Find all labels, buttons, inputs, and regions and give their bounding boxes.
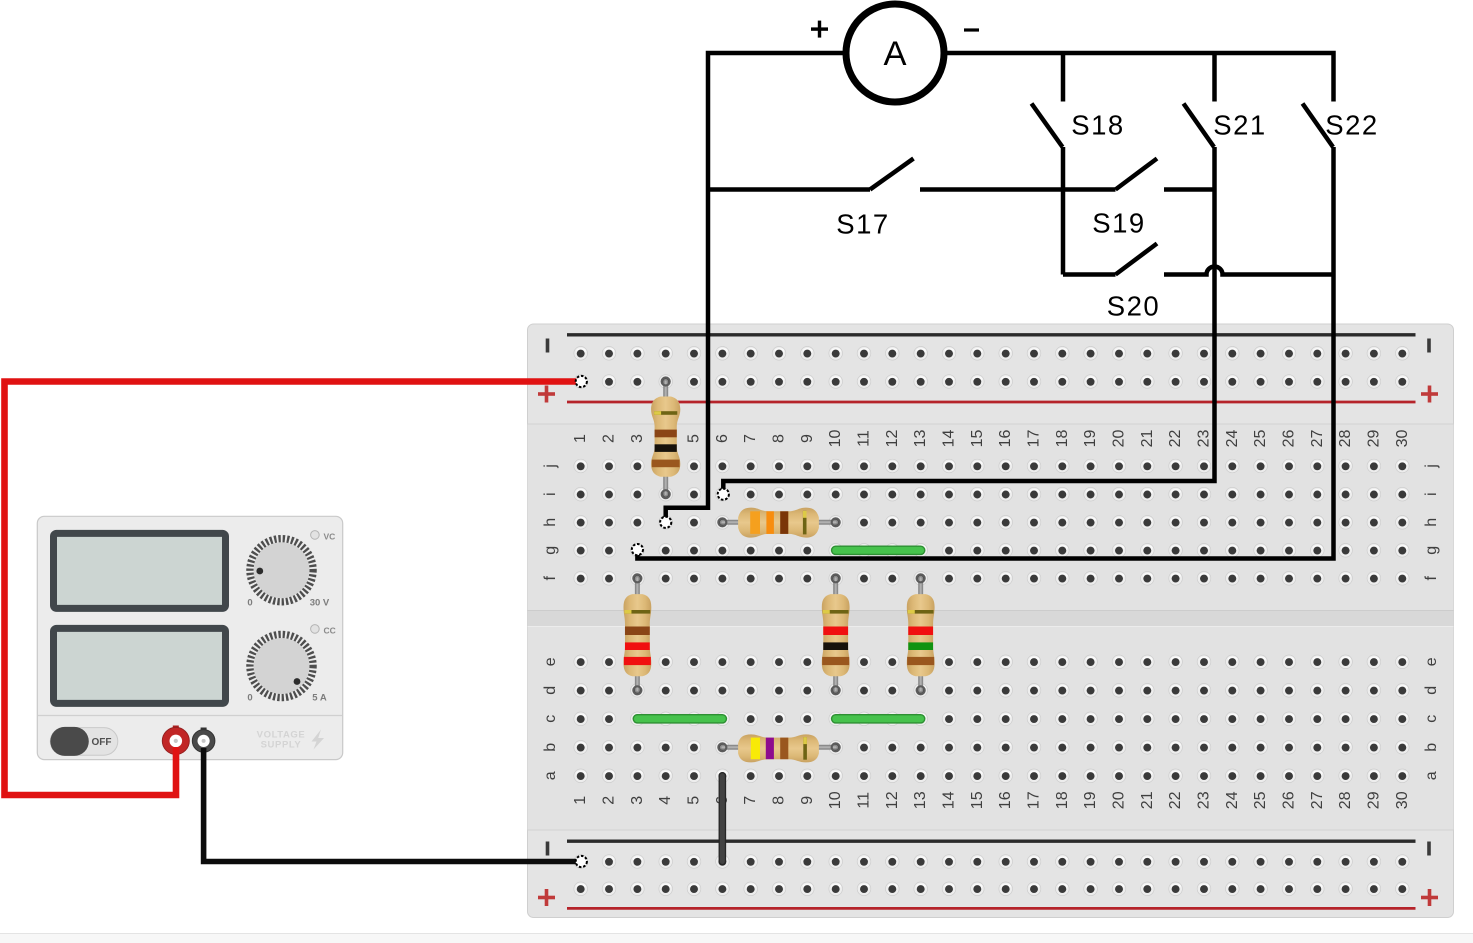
resistor R5 (orange-orange-brown, h6 to h10) — [718, 508, 839, 538]
svg-text:23: 23 — [1196, 791, 1213, 809]
node: g3 pin — [632, 544, 643, 555]
top power rail minus line — [567, 333, 1416, 336]
current knob — [251, 635, 313, 697]
svg-text:26: 26 — [1281, 791, 1298, 809]
svg-text:8: 8 — [771, 434, 788, 443]
svg-text:A: A — [883, 35, 906, 73]
svg-text:13: 13 — [912, 791, 929, 809]
svg-text:20: 20 — [1111, 791, 1128, 809]
svg-text:2: 2 — [601, 434, 618, 443]
svg-text:15: 15 — [969, 791, 986, 809]
svg-text:11: 11 — [856, 430, 873, 447]
svg-text:CC: CC — [324, 626, 336, 636]
power switch OFF — [50, 727, 118, 756]
page bottom divider — [0, 934, 1473, 943]
svg-text:d: d — [542, 686, 559, 695]
svg-text:i: i — [542, 492, 559, 496]
svg-text:SUPPLY: SUPPLY — [261, 740, 302, 751]
svg-text:d: d — [1423, 686, 1440, 695]
svg-text:i: i — [1423, 492, 1440, 496]
jumper wire a6 to V- rail (black) — [719, 776, 727, 862]
VC indicator — [311, 531, 320, 540]
svg-text:11: 11 — [856, 792, 873, 809]
svg-text:22: 22 — [1167, 791, 1184, 809]
svg-text:S22: S22 — [1325, 110, 1378, 141]
svg-text:8: 8 — [771, 796, 788, 805]
svg-text:a: a — [542, 771, 559, 780]
svg-text:c: c — [1423, 715, 1440, 723]
wire: power supply + to breadboard V+ (red) — [5, 382, 579, 796]
svg-text:2: 2 — [601, 796, 618, 805]
wire: S22 branch down to breadboard g3 — [637, 147, 1333, 559]
node: h4 pin — [660, 517, 671, 528]
svg-text:3: 3 — [629, 796, 646, 805]
svg-text:j: j — [1423, 464, 1440, 469]
svg-text:25: 25 — [1252, 791, 1269, 809]
svg-text:OFF: OFF — [92, 737, 112, 748]
negative terminal (black) — [192, 728, 215, 753]
svg-text:e: e — [542, 657, 559, 666]
svg-text:30 V: 30 V — [310, 598, 330, 609]
svg-text:6: 6 — [714, 434, 731, 443]
svg-text:27: 27 — [1309, 791, 1326, 809]
svg-text:19: 19 — [1082, 430, 1099, 448]
svg-text:1: 1 — [572, 434, 589, 443]
svg-text:9: 9 — [799, 434, 816, 443]
wire: power supply - to breadboard V- (black) — [204, 748, 578, 862]
svg-text:18: 18 — [1054, 791, 1071, 809]
svg-text:S18: S18 — [1071, 110, 1124, 141]
current display — [54, 628, 226, 703]
svg-text:0: 0 — [247, 693, 252, 704]
svg-text:5 A: 5 A — [312, 693, 327, 704]
svg-text:21: 21 — [1139, 791, 1156, 809]
svg-text:f: f — [542, 576, 559, 581]
svg-text:22: 22 — [1167, 430, 1184, 448]
svg-text:30: 30 — [1394, 430, 1411, 448]
node: V- rail pin — [576, 856, 587, 867]
row and column labels — [542, 430, 1440, 810]
jumper wire c3 to c6 (green) — [637, 714, 722, 724]
svg-text:b: b — [542, 743, 559, 752]
svg-text:h: h — [542, 518, 559, 527]
svg-text:5: 5 — [686, 434, 703, 443]
svg-text:h: h — [1423, 518, 1440, 527]
svg-text:18: 18 — [1054, 430, 1071, 448]
svg-text:e: e — [1423, 657, 1440, 666]
svg-text:17: 17 — [1026, 430, 1043, 448]
voltage knob — [251, 539, 313, 601]
svg-text:10: 10 — [827, 791, 844, 809]
svg-text:14: 14 — [941, 791, 958, 809]
CC indicator — [311, 625, 320, 634]
jumper wire g10 to g13 (green) — [836, 545, 921, 555]
svg-text:7: 7 — [742, 796, 759, 805]
svg-text:S21: S21 — [1213, 110, 1266, 141]
node: V+ rail pin — [576, 376, 587, 387]
svg-text:16: 16 — [997, 791, 1014, 809]
voltage supply logo — [257, 730, 324, 751]
resistor R6 (yellow-violet-brown, b6 to b10) — [718, 734, 839, 762]
bottom power rail minus line — [567, 840, 1416, 843]
svg-text:25: 25 — [1252, 430, 1269, 448]
svg-text:14: 14 — [941, 430, 958, 448]
switch S17 — [708, 159, 1063, 240]
wire: ammeter - to S18/S21/S22 top rail — [944, 53, 1334, 102]
rail polarity labels — [546, 339, 550, 353]
svg-text:16: 16 — [997, 430, 1014, 448]
resistor R1 (brown-black-brown, V+ to i4) — [651, 378, 680, 499]
switch S20 — [1063, 244, 1334, 322]
resistor R4 (red-green-brown, f13 to d13) — [907, 574, 935, 694]
svg-text:21: 21 — [1139, 430, 1156, 448]
svg-text:j: j — [542, 464, 559, 469]
svg-text:7: 7 — [742, 434, 759, 443]
svg-text:c: c — [542, 715, 559, 723]
svg-text:13: 13 — [912, 430, 929, 448]
svg-text:1: 1 — [572, 796, 589, 805]
node: i6 pin — [718, 489, 729, 500]
svg-text:15: 15 — [969, 430, 986, 448]
switch S21 — [1184, 53, 1267, 147]
svg-text:10: 10 — [827, 430, 844, 448]
svg-text:24: 24 — [1224, 791, 1241, 809]
svg-text:12: 12 — [884, 791, 901, 809]
svg-text:g: g — [542, 546, 559, 555]
svg-text:S17: S17 — [836, 209, 889, 240]
svg-text:3: 3 — [629, 434, 646, 443]
svg-text:19: 19 — [1082, 791, 1099, 809]
svg-text:f: f — [1423, 576, 1440, 581]
svg-text:27: 27 — [1309, 430, 1326, 448]
svg-text:4: 4 — [657, 796, 674, 805]
svg-text:29: 29 — [1365, 430, 1382, 448]
jumper wire c10 to c13 (green) — [836, 714, 921, 724]
switch S22 — [1303, 104, 1379, 148]
svg-text:g: g — [1423, 546, 1440, 555]
power supply PS1 — [37, 516, 342, 759]
svg-text:12: 12 — [884, 430, 901, 448]
wire: breadboard h4 to ammeter + and S17 left rail — [666, 53, 846, 518]
switch S18 — [1032, 53, 1125, 275]
svg-text:29: 29 — [1365, 791, 1382, 809]
svg-text:S19: S19 — [1092, 208, 1145, 239]
bottom power rail plus line — [567, 907, 1416, 910]
svg-text:28: 28 — [1337, 791, 1354, 809]
svg-text:a: a — [1423, 771, 1440, 780]
svg-text:b: b — [1423, 743, 1440, 752]
svg-text:23: 23 — [1196, 430, 1213, 448]
svg-text:0: 0 — [247, 598, 252, 609]
wire: S21 branch down to breadboard i6 — [723, 147, 1214, 491]
svg-text:26: 26 — [1281, 430, 1298, 448]
voltage display — [54, 533, 226, 608]
svg-text:S20: S20 — [1107, 291, 1160, 322]
svg-text:28: 28 — [1337, 430, 1354, 448]
svg-text:VC: VC — [324, 532, 336, 542]
svg-text:17: 17 — [1026, 791, 1043, 809]
breadboard — [528, 324, 1454, 918]
resistor R2 (brown-red-red, f3 to d3) — [624, 574, 652, 694]
svg-text:20: 20 — [1111, 430, 1128, 448]
svg-text:30: 30 — [1394, 791, 1411, 809]
resistor R3 (red-black-brown, f10 to d10) — [822, 574, 850, 694]
ammeter A1 — [811, 4, 979, 102]
svg-text:5: 5 — [686, 796, 703, 805]
top power rail plus line — [567, 401, 1416, 404]
positive terminal (red) — [162, 726, 189, 755]
svg-text:24: 24 — [1224, 430, 1241, 448]
svg-text:9: 9 — [799, 796, 816, 805]
switch S19 — [1063, 159, 1215, 239]
